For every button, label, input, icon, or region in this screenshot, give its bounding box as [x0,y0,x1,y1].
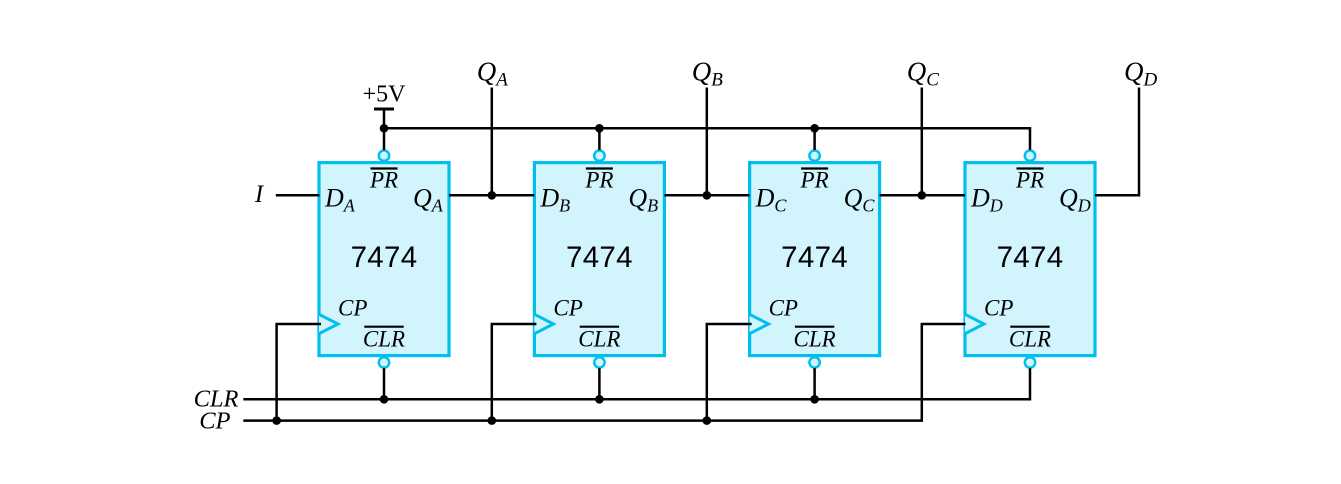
svg-text:PR: PR [1015,167,1044,192]
wire stub bus to U2 PR [598,128,601,150]
U1 CLR bubble (active-low clear) [379,357,389,367]
CLR bus wire [243,368,1030,399]
wire QB output to DC input [664,194,749,197]
U4 pin label PR with overline [1015,167,1044,192]
flip-flop U3 7474 body [750,163,880,356]
svg-text:7474: 7474 [997,241,1064,274]
svg-text:7474: 7474 [351,241,418,274]
svg-text:CP: CP [769,296,798,321]
U4 CLR bubble (active-low clear) [1025,357,1035,367]
U2 clock edge-trigger triangle [534,314,553,333]
U1 clock edge-trigger triangle [319,314,338,333]
U3 PR bubble (pin PR, active-low preset) [809,151,819,161]
wire CP feed to U1 [277,324,321,421]
U2 pin label PR with overline [584,167,613,192]
svg-text:+5V: +5V [363,82,407,108]
U4 PR bubble (pin PR, active-low preset) [1025,151,1035,161]
U2 PR bubble (pin PR, active-low preset) [594,151,604,161]
U3 pin label PR with overline [800,167,829,192]
U1 pin label PR with overline [369,167,398,192]
wire U3 CLR stub [813,368,816,399]
svg-text:CLR: CLR [794,327,836,352]
junction node QC [918,191,927,200]
junction CP bus at x=706.8 [703,416,712,425]
svg-text:CLR: CLR [363,327,405,352]
junction +5V at U1 [380,124,389,133]
wire QC output to DD input [880,194,965,197]
flip-flop U4 7474 body [965,163,1095,356]
svg-text:CP: CP [984,296,1013,321]
wire QA vertical to top label [491,88,494,196]
wire CP feed to U3 [707,324,752,421]
wire U1 CLR stub [383,368,386,399]
flip-flop U2 7474 body [534,163,664,356]
svg-text:PR: PR [584,167,613,192]
wire I to U1 D [276,194,320,197]
junction bus/U2 PR [595,124,604,133]
svg-text:CP: CP [553,296,582,321]
U1 PR bubble (pin PR, active-low preset) [379,151,389,161]
svg-text:7474: 7474 [781,241,848,274]
flip-flop U1 7474 body [319,163,449,356]
svg-text:7474: 7474 [566,241,633,274]
wire +5V vertical to U1 PR [383,109,386,150]
wire QB vertical to top label [706,88,709,196]
junction CLR bus at U3 [810,395,819,404]
U2 CLR bubble (active-low clear) [594,357,604,367]
wire QC vertical to top label [921,88,924,196]
U3 CLR bubble (active-low clear) [809,357,819,367]
svg-text:CLR: CLR [1009,327,1051,352]
U3 clock edge-trigger triangle [750,314,769,333]
wire QA output to DB input [449,194,534,197]
svg-text:PR: PR [800,167,829,192]
U4 clock edge-trigger triangle [965,314,984,333]
U4 pin label CLR with overline [1009,327,1051,352]
+5V terminal bar [374,108,394,111]
junction bus/U3 PR [810,124,819,133]
U2 pin label CLR with overline [578,327,620,352]
svg-text:CLR: CLR [578,327,620,352]
junction CLR bus at U1 [380,395,389,404]
junction node QA [488,191,497,200]
+5V bus wire (top horizontal) [384,128,1030,150]
U1 pin label CLR with overline [363,327,405,352]
wire U2 CLR stub [598,368,601,399]
wire stub bus to U3 PR [813,128,816,150]
svg-text:CP: CP [199,407,230,434]
CP bus wire [243,324,965,421]
svg-text:PR: PR [369,167,398,192]
U3 pin label CLR with overline [794,327,836,352]
junction CLR bus at U2 [595,395,604,404]
wire CP feed to U2 [492,324,537,421]
junction node QB [703,191,712,200]
svg-text:CP: CP [338,296,367,321]
wire QD output to top label [1095,88,1139,196]
junction CP bus at x=491.8 [488,416,497,425]
junction CP bus at x=276.6 [272,416,281,425]
